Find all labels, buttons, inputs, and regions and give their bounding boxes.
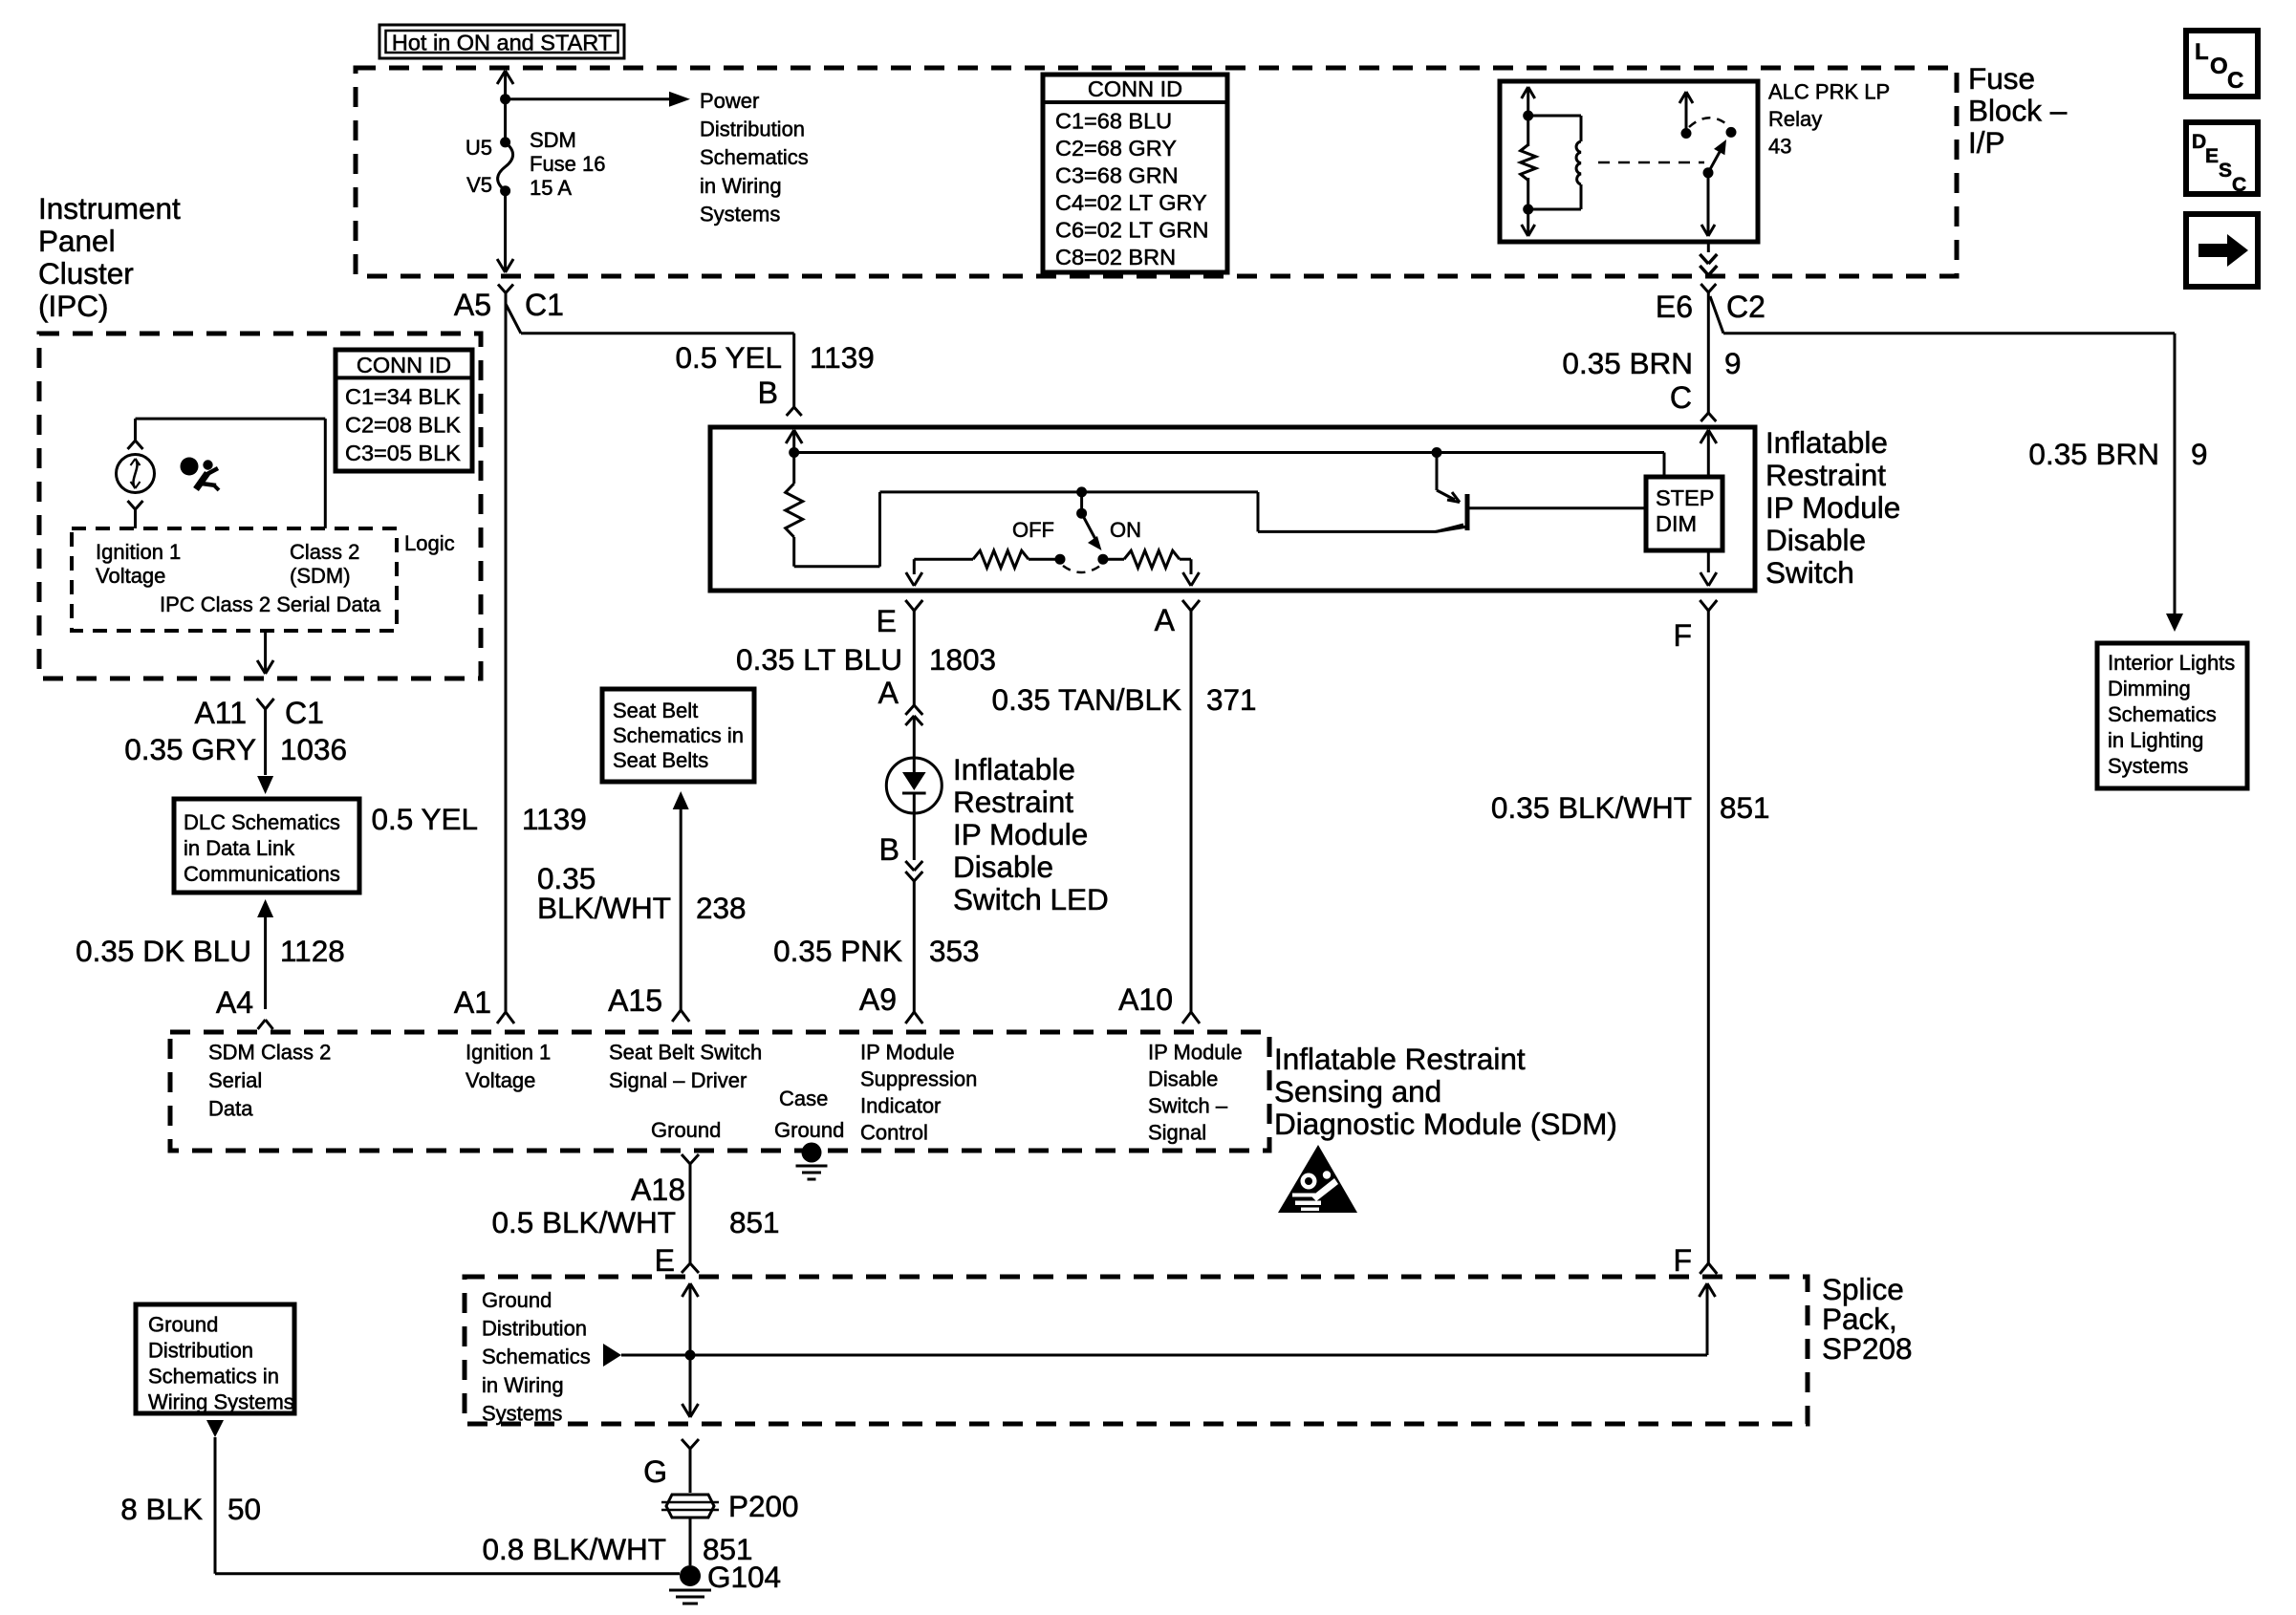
svg-text:Distribution: Distribution <box>148 1339 253 1363</box>
svg-text:Restraint: Restraint <box>1765 458 1886 492</box>
svg-text:Block –: Block – <box>1968 94 2068 128</box>
svg-text:353: 353 <box>929 934 980 968</box>
svg-text:E: E <box>877 604 897 638</box>
svg-text:Switch LED: Switch LED <box>953 882 1109 916</box>
svg-text:0.5 YEL: 0.5 YEL <box>371 802 478 836</box>
svg-text:Voltage: Voltage <box>466 1068 535 1092</box>
svg-text:in Lighting: in Lighting <box>2108 728 2203 752</box>
svg-text:F: F <box>1673 618 1692 653</box>
svg-text:Data: Data <box>208 1097 253 1121</box>
svg-text:Restraint: Restraint <box>953 785 1073 819</box>
svg-text:E: E <box>655 1243 675 1278</box>
svg-text:F: F <box>1673 1243 1692 1278</box>
svg-text:Indicator: Indicator <box>860 1094 941 1118</box>
svg-text:Systems: Systems <box>2108 754 2188 778</box>
svg-text:C: C <box>1670 380 1692 415</box>
svg-text:G104: G104 <box>707 1560 781 1594</box>
svg-text:IP Module: IP Module <box>1765 490 1900 525</box>
svg-text:851: 851 <box>1720 790 1770 825</box>
svg-text:Power: Power <box>700 89 759 113</box>
svg-text:Wiring Systems: Wiring Systems <box>148 1390 294 1414</box>
svg-text:C4=02 LT GRY: C4=02 LT GRY <box>1055 190 1207 215</box>
svg-text:in Wiring: in Wiring <box>482 1373 564 1397</box>
svg-text:Schematics in: Schematics in <box>613 723 744 747</box>
svg-text:Systems: Systems <box>700 202 780 226</box>
svg-text:STEP: STEP <box>1656 485 1714 510</box>
svg-text:Fuse 16: Fuse 16 <box>530 152 606 176</box>
svg-text:A1: A1 <box>454 985 491 1020</box>
svg-text:C6=02 LT GRN: C6=02 LT GRN <box>1055 217 1208 242</box>
svg-text:C3=68 GRN: C3=68 GRN <box>1055 162 1179 187</box>
svg-text:Class 2: Class 2 <box>290 540 359 564</box>
svg-text:0.5 YEL: 0.5 YEL <box>675 340 782 375</box>
svg-text:IPC Class 2 Serial Data: IPC Class 2 Serial Data <box>160 592 381 616</box>
svg-text:9: 9 <box>2191 437 2208 471</box>
svg-text:Logic: Logic <box>404 531 455 555</box>
svg-text:15 A: 15 A <box>530 176 572 200</box>
svg-text:Ground: Ground <box>148 1313 218 1337</box>
svg-text:Fuse: Fuse <box>1968 61 2035 96</box>
svg-text:Disable: Disable <box>1765 523 1866 557</box>
svg-text:E: E <box>2205 145 2219 167</box>
svg-text:Schematics: Schematics <box>482 1345 591 1368</box>
svg-text:Panel: Panel <box>38 224 116 258</box>
svg-text:Case: Case <box>779 1087 828 1110</box>
svg-text:Hot in ON and START: Hot in ON and START <box>392 31 612 55</box>
svg-text:DIM: DIM <box>1656 511 1697 536</box>
svg-text:Ignition 1: Ignition 1 <box>466 1041 551 1065</box>
svg-text:0.35 BLK/WHT: 0.35 BLK/WHT <box>1491 790 1692 825</box>
svg-text:Disable: Disable <box>953 850 1053 884</box>
svg-text:8 BLK: 8 BLK <box>120 1492 203 1526</box>
svg-text:IP Module: IP Module <box>860 1041 955 1065</box>
svg-text:in Wiring: in Wiring <box>700 174 782 198</box>
svg-text:A: A <box>878 676 899 710</box>
svg-text:Inflatable: Inflatable <box>1765 425 1888 460</box>
svg-text:0.35 PNK: 0.35 PNK <box>773 934 902 968</box>
svg-text:C2: C2 <box>1726 290 1765 324</box>
svg-text:Schematics in: Schematics in <box>148 1365 279 1389</box>
svg-text:0.35 LT BLU: 0.35 LT BLU <box>736 642 902 677</box>
svg-text:U5: U5 <box>466 136 492 160</box>
svg-text:Disable: Disable <box>1148 1067 1218 1091</box>
svg-text:0.35 TAN/BLK: 0.35 TAN/BLK <box>992 682 1181 717</box>
svg-text:Sensing and: Sensing and <box>1274 1074 1441 1109</box>
svg-text:C1: C1 <box>285 696 324 730</box>
svg-text:1036: 1036 <box>280 732 347 766</box>
svg-text:238: 238 <box>696 891 747 925</box>
svg-text:(SDM): (SDM) <box>290 564 351 588</box>
svg-text:A4: A4 <box>216 985 253 1020</box>
svg-text:G: G <box>643 1454 667 1489</box>
svg-text:Seat Belts: Seat Belts <box>613 748 708 772</box>
svg-text:B: B <box>758 376 778 410</box>
svg-text:50: 50 <box>227 1492 261 1526</box>
svg-text:A9: A9 <box>859 982 897 1017</box>
svg-text:0.35 GRY: 0.35 GRY <box>124 732 256 766</box>
svg-text:C2=08 BLK: C2=08 BLK <box>345 413 461 438</box>
svg-text:Diagnostic Module (SDM): Diagnostic Module (SDM) <box>1274 1107 1617 1141</box>
svg-text:Distribution: Distribution <box>700 118 805 141</box>
svg-text:E6: E6 <box>1656 290 1693 324</box>
svg-text:CONN ID: CONN ID <box>357 353 451 377</box>
svg-text:Instrument: Instrument <box>38 191 181 226</box>
svg-text:43: 43 <box>1768 135 1791 159</box>
svg-text:371: 371 <box>1206 682 1257 717</box>
svg-text:0.35 BRN: 0.35 BRN <box>2028 437 2159 471</box>
svg-text:ON: ON <box>1110 518 1141 542</box>
svg-text:Voltage: Voltage <box>96 564 165 588</box>
svg-text:0.35 BRN: 0.35 BRN <box>1562 346 1693 380</box>
svg-text:D: D <box>2192 131 2206 153</box>
svg-text:B: B <box>879 832 899 867</box>
svg-text:Suppression: Suppression <box>860 1067 977 1091</box>
svg-text:Ground: Ground <box>774 1118 844 1142</box>
svg-text:Systems: Systems <box>482 1401 562 1425</box>
svg-text:Inflatable: Inflatable <box>953 752 1075 786</box>
svg-text:I/P: I/P <box>1968 125 2005 160</box>
svg-text:in Data Link: in Data Link <box>184 836 295 860</box>
svg-text:SDM Class 2: SDM Class 2 <box>208 1041 331 1065</box>
svg-text:A: A <box>1155 603 1176 637</box>
svg-text:Cluster: Cluster <box>38 256 134 291</box>
svg-text:C8=02 BRN: C8=02 BRN <box>1055 245 1176 269</box>
svg-text:1139: 1139 <box>810 340 875 375</box>
svg-text:IP Module: IP Module <box>953 817 1088 851</box>
svg-text:ALC PRK LP: ALC PRK LP <box>1768 80 1890 104</box>
svg-text:OFF: OFF <box>1012 518 1054 542</box>
svg-text:Switch –: Switch – <box>1148 1094 1228 1118</box>
svg-text:SDM: SDM <box>530 128 576 152</box>
svg-text:851: 851 <box>729 1205 780 1239</box>
svg-text:0.8 BLK/WHT: 0.8 BLK/WHT <box>482 1532 666 1566</box>
svg-text:Seat Belt Switch: Seat Belt Switch <box>609 1041 762 1065</box>
svg-text:Relay: Relay <box>1768 107 1822 131</box>
svg-text:A5: A5 <box>454 288 491 322</box>
svg-text:Schematics: Schematics <box>2108 702 2217 726</box>
svg-text:0.35 DK BLU: 0.35 DK BLU <box>76 934 251 968</box>
svg-text:BLK/WHT: BLK/WHT <box>537 891 671 925</box>
svg-text:0.5 BLK/WHT: 0.5 BLK/WHT <box>491 1205 676 1239</box>
svg-text:P200: P200 <box>728 1489 799 1523</box>
svg-text:A11: A11 <box>194 696 247 730</box>
svg-text:Switch: Switch <box>1765 555 1854 590</box>
svg-text:C1=34 BLK: C1=34 BLK <box>345 384 461 409</box>
svg-text:1803: 1803 <box>929 642 996 677</box>
svg-text:DLC Schematics: DLC Schematics <box>184 810 340 834</box>
svg-text:C: C <box>2227 68 2243 94</box>
svg-text:C3=05 BLK: C3=05 BLK <box>345 441 461 465</box>
svg-text:Dimming: Dimming <box>2108 677 2191 700</box>
svg-text:Schematics: Schematics <box>700 145 809 169</box>
svg-text:Seat Belt: Seat Belt <box>613 699 698 722</box>
svg-text:C1=68 BLU: C1=68 BLU <box>1055 108 1172 133</box>
svg-text:Ground: Ground <box>651 1118 721 1142</box>
svg-text:L: L <box>2195 39 2209 65</box>
svg-text:(IPC): (IPC) <box>38 289 109 323</box>
svg-text:Signal: Signal <box>1148 1121 1206 1145</box>
svg-text:Distribution: Distribution <box>482 1317 587 1341</box>
svg-text:C2=68 GRY: C2=68 GRY <box>1055 136 1177 161</box>
svg-text:Ignition 1: Ignition 1 <box>96 540 181 564</box>
svg-text:1139: 1139 <box>522 802 587 836</box>
svg-text:O: O <box>2210 54 2228 79</box>
svg-text:Signal – Driver: Signal – Driver <box>609 1068 747 1092</box>
svg-text:C1: C1 <box>525 288 564 322</box>
svg-text:Interior Lights: Interior Lights <box>2108 651 2235 675</box>
svg-text:A10: A10 <box>1118 982 1173 1017</box>
svg-text:A15: A15 <box>608 983 662 1018</box>
svg-text:Inflatable Restraint: Inflatable Restraint <box>1274 1042 1526 1076</box>
svg-text:1128: 1128 <box>280 934 345 968</box>
svg-text:V5: V5 <box>466 173 492 197</box>
svg-text:Ground: Ground <box>482 1288 552 1312</box>
svg-text:C: C <box>2232 174 2246 196</box>
svg-text:CONN ID: CONN ID <box>1088 76 1182 101</box>
svg-text:SP208: SP208 <box>1822 1331 1913 1366</box>
svg-text:S: S <box>2219 160 2232 182</box>
svg-text:Serial: Serial <box>208 1068 262 1092</box>
svg-text:9: 9 <box>1724 346 1742 380</box>
svg-text:Control: Control <box>860 1121 928 1145</box>
svg-text:A18: A18 <box>631 1173 685 1207</box>
svg-text:Communications: Communications <box>184 862 340 886</box>
svg-text:IP Module: IP Module <box>1148 1041 1243 1065</box>
